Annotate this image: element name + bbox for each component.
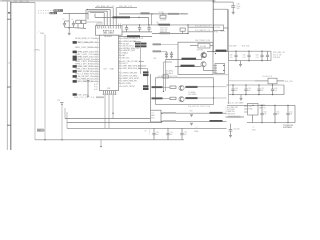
svg-text:1uF: 1uF [290,114,293,116]
pin stub d [95,24,97,26]
svg-text:C20: C20 [156,132,159,134]
svg-text:C43: C43 [274,88,277,90]
ground sym mid1 [190,111,194,117]
text block row1 [273,51,286,59]
svg-text:∟ PMIC: ∟ PMIC [33,49,41,52]
driver U10 [248,103,259,115]
net label PMIC A [195,26,210,28]
IC U2 left inner line [96,38,98,84]
svg-text:VDD_IO_1.8V_MAIN: VDD_IO_1.8V_MAIN [228,102,245,105]
wire Q6 out [185,97,227,98]
net label G1 [186,86,198,88]
svg-text:1uF: 1uF [274,90,277,92]
net label ext pair 4 [143,88,149,90]
svg-text:RTC_XI: RTC_XI [181,14,187,16]
svg-text:SW1: SW1 [252,130,256,132]
net label G2 [186,97,198,99]
motor box [156,78,214,105]
svg-text:C22: C22 [184,132,187,134]
cap C51 [273,105,276,124]
svg-text:NC/OSC: NC/OSC [197,50,204,52]
svg-text:C52: C52 [290,111,293,113]
cap C40 [231,84,234,95]
wire Q2 out [203,52,205,53]
svg-text:A01-0532: A01-0532 [104,32,114,35]
wire PMIC A [188,26,214,28]
svg-text:XTAL: XTAL [40,32,44,35]
component R20 [180,28,185,34]
svg-text:4.7u: 4.7u [243,57,246,59]
wire cluster drop [68,13,70,32]
rail R1 top [229,50,272,52]
svg-text:2. 0402 SIZE: 2. 0402 SIZE [226,109,235,111]
crystal X2 [160,15,166,21]
svg-text:R31: R31 [154,58,157,60]
net XOM1 label [50,12,58,15]
wire UART1 [166,57,202,60]
ground sym mid2 [190,123,193,125]
wire SPK out [207,51,229,53]
svg-text:VDD_2.8V: VDD_2.8V [285,81,294,83]
wire row ext D [138,69,148,89]
svg-text:U7: U7 [152,113,154,115]
svg-text:VCC_MOTOR_2.8: VCC_MOTOR_2.8 [195,26,210,28]
text C12 val [141,29,143,31]
wire vertical x45 [44,35,46,140]
svg-text:UM_CODEC_1.8V: UM_CODEC_1.8V [195,40,211,42]
text C6 [72,19,74,21]
svg-text:C51: C51 [277,111,280,113]
wire VBAT vertical [34,2,36,139]
audio codec U5 box [178,42,213,74]
cap C3 [76,20,81,28]
cap C4 [81,20,86,28]
IC U2B bottom label [107,88,111,90]
net label out2a [163,120,176,122]
text inside motor box [188,92,196,96]
regulator U9 [255,78,284,84]
cap C16 [170,51,173,58]
wire vertical x67 [66,112,68,128]
cap C32 [260,51,263,62]
svg-text:LM4990: LM4990 [260,105,266,107]
svg-text:VDD_MIF: VDD_MIF [229,46,236,48]
svg-text:1u: 1u [141,29,143,31]
rail R2 bottom [229,85,285,95]
junction [69,27,70,28]
text header row1a [229,46,236,48]
svg-text:C32: C32 [256,55,259,57]
cap C42 [257,84,260,95]
cap C30 [234,51,237,62]
text NC rows [166,70,174,75]
svg-text:X5R 6.3V: X5R 6.3V [160,31,168,33]
svg-text:770: 770 [57,100,60,102]
svg-text:32.768K: 32.768K [160,19,166,21]
net label SPK [216,50,227,52]
gnd row2 [240,95,243,101]
wire rail L6 [35,139,184,141]
text C32 [256,55,259,59]
text C31 [243,55,246,59]
net label PMIC B [195,29,210,32]
net label AUD1 [153,43,179,45]
transistor Q2 [201,53,206,58]
text NO POWER [283,125,293,129]
svg-text:4.7u: 4.7u [230,57,233,59]
wire U9 left [227,81,256,85]
wire row ext C [138,65,146,67]
small box top [163,75,168,78]
cap C52 [286,105,289,124]
net label ext pair 1 [143,71,149,73]
text NC c [94,87,99,91]
junction [215,53,216,54]
wire UART1 drop [165,60,167,92]
wire out1 [161,113,227,114]
wire from XOM labels [63,12,88,14]
net label UART2 [181,65,195,67]
wire VDDQ [119,14,188,25]
text right of U10 [260,105,267,109]
driver U10 pins [244,106,248,112]
cap bank rail top [122,24,213,26]
wire cap rail bottom [65,27,87,28]
text NC a [94,82,99,86]
text C52 [290,111,293,115]
svg-text:V17: V17 [104,68,107,70]
text C50 [264,111,267,115]
net label SIM1 [73,93,90,96]
svg-text:▽: ▽ [196,127,198,130]
transistor Q6 [179,97,184,102]
svg-text:1uF: 1uF [261,90,264,92]
cap C12 [138,25,141,32]
text band3 label [228,102,245,105]
connector J2 [213,64,224,74]
cap C15 [165,51,168,58]
resistor R42 [170,97,176,99]
svg-text:3•: 3• [145,131,147,133]
svg-text:1uF: 1uF [170,134,173,136]
svg-text:C45 2.2uF: C45 2.2uF [160,27,167,29]
wire y36.5 [119,36,153,38]
cap C30 [231,2,235,12]
junction x213 top [213,1,214,2]
net label AVDD2 [160,32,171,34]
net VBAT label [13,0,30,3]
rail R3 bottom [247,105,295,122]
IC U2 bottom pins [103,91,117,95]
text motor header [158,76,178,78]
transistor Q3 [201,62,206,67]
svg-text:GPC1_3 MSM_SPI_EN: GPC1_3 MSM_SPI_EN [77,81,94,83]
connector J1 pin tick 2 [7,86,11,88]
svg-text:XGPIO_GPS_EN: XGPIO_GPS_EN [123,73,138,75]
svg-text:X5R 0402: X5R 0402 [273,57,280,59]
wire VDD_M [95,17,149,25]
bus wire L2 [89,11,108,26]
junction [87,9,88,10]
cap C60 [229,124,233,136]
net label ext pair 3 [143,85,149,87]
junction [138,17,139,18]
svg-text:PWM: PWM [248,108,253,110]
svg-text:VDD_G3D: VDD_G3D [242,46,251,48]
IC U2 body [100,35,119,90]
svg-text:RST: RST [37,130,40,132]
wire vertical x213 [212,0,214,52]
pin stub b [99,22,101,26]
net label AUD2 [153,50,167,52]
net label MOT [221,28,229,32]
connector J1 pin tick 3 [7,124,11,126]
wire x228 long [228,9,230,104]
net VDDQ label [141,12,150,14]
wire stub x95 [94,14,96,18]
pin stub e [118,24,120,26]
svg-text:C6: C6 [72,19,74,21]
wire UART2 [175,66,201,68]
gnd row1 [239,61,242,67]
wire UART2 drop [164,62,173,92]
svg-text:1u: 1u [150,29,152,31]
wire vertical x62 [61,104,63,140]
net label ext 1 [135,43,147,45]
svg-text:X1 24M: X1 24M [200,46,206,48]
text C41 [248,88,251,92]
svg-text:SCl_2: SCl_2 [123,63,128,65]
svg-text:U4 DRV: U4 DRV [215,27,222,29]
net label IN2 [152,97,163,99]
svg-text:1uF: 1uF [235,90,238,92]
wire out2 [161,121,227,122]
wire y9 right [213,9,227,51]
junction [112,113,113,114]
text LDO [263,76,272,78]
wire codec bottom right [213,74,228,76]
junction [163,91,164,92]
wire rail L4 [67,122,162,124]
svg-text:SIM_CLK_RST 2.8: SIM_CLK_RST 2.8 [74,97,94,99]
text 3 rows right [145,130,150,135]
svg-text:1uF: 1uF [248,90,251,92]
wire VBAT top [11,1,35,3]
IC U2 name [103,31,114,35]
net flag OSC [39,30,45,35]
svg-text:4.7u: 4.7u [256,57,259,59]
svg-text:1uF: 1uF [184,134,187,136]
svg-text:1uF: 1uF [264,114,267,116]
svg-text:8971: 8971 [151,117,155,119]
leader dash 2 [38,12,50,14]
stub below rail [100,140,101,148]
svg-text:M2_SCL: M2_SCL [123,58,130,60]
pin stub a [97,22,99,26]
svg-text:VIB_MOTOR COIN TYPE: VIB_MOTOR COIN TYPE [188,106,210,108]
wire U7 in [150,74,152,110]
svg-text:U10: U10 [249,106,252,108]
wire rail L3 [65,118,150,120]
svg-text:GPH1_2 KEY_SENSE: GPH1_2 KEY_SENSE [75,47,94,49]
wire vertical x65 [64,108,66,119]
cluster feed wire B [87,11,89,19]
transistor Q5 [179,85,184,90]
svg-text:C31: C31 [243,55,246,57]
junction [139,24,140,25]
values text block [160,27,168,33]
net label SIM2 [74,96,104,99]
net flag x45 [37,32,38,35]
wire IC bottom drop C [112,95,114,119]
svg-text:4. SEE NOTE: 4. SEE NOTE [226,113,236,115]
transistor Q1 [201,52,206,57]
net label ext 2 [135,45,147,47]
wire row ext A [134,42,141,75]
svg-text:C21: C21 [170,132,173,134]
svg-text:XGPS_TSYNC: XGPS_TSYNC [123,86,136,88]
net label out1a [163,112,176,114]
IC U4 box [214,25,224,31]
capacitor C21 [166,128,172,140]
svg-text:C46 0.1uF: C46 0.1uF [160,29,167,31]
ground C60 [229,135,232,137]
sym SW1 [252,127,256,132]
junction [44,139,45,140]
net flag Y1 [156,21,159,25]
wire VDD_ARM [95,7,113,9]
svg-text:C5: C5 [63,19,65,21]
bus wire L1 [87,10,110,26]
rail R3 top [227,104,295,106]
wire vertical x150 [150,74,152,110]
junction [162,13,163,14]
pin stub f [119,24,121,26]
pullup R10 [57,100,64,105]
svg-text:C60 1uF: C60 1uF [234,128,240,130]
text NC b [94,85,99,89]
net label ext pair 2 [143,74,149,76]
net VDD_M label [113,16,131,18]
bus wire L3 [90,13,104,26]
text RTC hdr [159,12,165,14]
text C40 [235,88,238,92]
net XOM0 label [54,9,64,12]
vert x188 [187,24,188,34]
text C30 [237,4,241,11]
svg-text:⌜: ⌜ [37,32,38,35]
net label AVDD [159,24,171,26]
svg-text:5V0: 5V0 [190,111,193,113]
svg-text:C40: C40 [235,88,238,90]
junction [148,24,149,25]
net label RTC1 [168,13,179,15]
wire VDD_ARM drop [112,8,114,26]
wire X1 left [190,45,198,47]
svg-text:CHG PUMP: CHG PUMP [188,94,196,96]
text V17 inside body [104,68,115,70]
wire U9 drop [272,84,274,85]
resistor R41 [170,86,176,88]
capacitor C22 [180,128,186,140]
IC U2 right inner line [120,38,122,86]
svg-text:C42: C42 [261,88,264,90]
svg-text:C41: C41 [248,88,251,90]
text small x155 [154,58,157,60]
connector J1 label [8,63,11,65]
cap C1 [63,19,67,27]
svg-text:XUSB_DP USB_D_P 3.3: XUSB_DP USB_D_P 3.3 [123,38,144,40]
text C51 [277,111,280,115]
text C13 val [150,29,152,31]
wire IN2 [163,97,171,99]
wire y33.5 [152,33,188,35]
row 86 text [119,86,136,88]
text UM header [195,40,211,42]
wire IC bottom drop B [108,95,110,128]
wire Q5 out [185,86,227,87]
cap C41 [244,84,247,95]
junction [252,105,253,106]
svg-text:TO PWR OFF: TO PWR OFF [283,125,293,127]
net label VDD28 [285,81,294,83]
wire PMIC B [188,31,214,33]
rail R2 top [229,84,285,86]
net label UART1 [182,58,197,60]
text U4 below [214,30,218,34]
text C60 [234,128,240,130]
svg-text:▭: ▭ [253,127,255,129]
cap bank rail bottom [122,31,152,33]
svg-text:1u: 1u [128,29,130,31]
junction [151,13,152,14]
svg-text:XOM_1: XOM_1 [50,13,56,15]
svg-text:1uF: 1uF [156,134,159,136]
cap C2 [72,21,75,27]
text C42 [261,88,264,92]
wire PWM label [226,116,245,118]
wire top y2 right [213,1,233,3]
cap C11 [125,25,128,32]
wire IN1 [163,86,171,88]
cap C33 [266,51,269,61]
text header row1b [242,46,251,48]
connector J1 body [7,1,11,150]
wire row ext B [139,61,144,63]
net label out1b [210,112,223,114]
crystal X1 box [198,43,210,48]
capacitor C20 [152,128,158,140]
wire VDD_INT drop [115,8,117,26]
connector J1 pin tick 1 [7,18,11,20]
text under X1 [197,50,204,52]
IC U2 footnote [104,35,112,38]
wire rail L5 [67,127,227,129]
svg-text:MOT+: MOT+ [221,30,226,32]
cap C43 [271,84,274,95]
IC U2 right pin rows [119,37,144,85]
svg-text:XEINT_9_WLAN_HOST: XEINT_9_WLAN_HOST [77,41,94,44]
svg-text:C55 / 4.7uF: C55 / 4.7uF [273,55,281,57]
net label out2b [210,120,223,122]
svg-text:C30: C30 [230,55,233,57]
rail R1 bottom [229,51,272,61]
svg-text:1uF: 1uF [277,114,280,116]
wire Q3 out [204,67,214,71]
text C11 val [128,29,130,31]
IC U2 left pin rows [73,36,100,83]
pin stub c [101,22,103,26]
